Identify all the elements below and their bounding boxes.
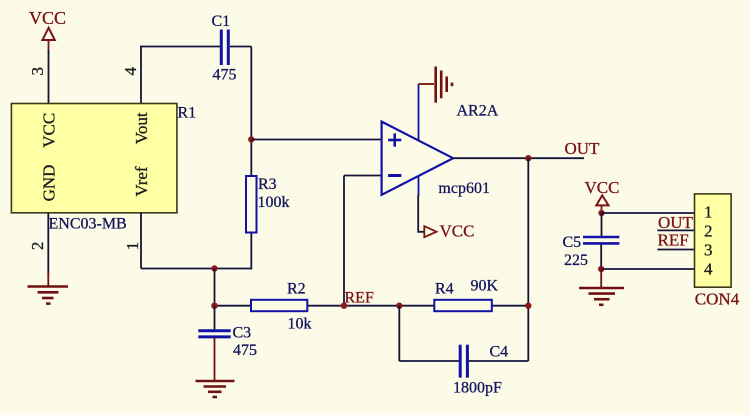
pin number 2 (CON4)	[704, 222, 713, 241]
power flag VCC (C5 / CON4 pin1)	[585, 178, 620, 213]
svg-text:10k: 10k	[288, 315, 312, 332]
net label OUT	[565, 139, 601, 158]
wire R3 bottom lead	[250, 233, 252, 270]
ground (rotated, op-amp top supply)	[419, 67, 453, 103]
value 100k	[258, 194, 290, 211]
svg-text:4: 4	[704, 259, 713, 278]
junction (output branch)	[525, 155, 531, 161]
junction (C5 bottom)	[598, 266, 604, 272]
svg-text:GND: GND	[40, 165, 59, 202]
wire C1 right plate to corner	[230, 46, 251, 48]
wire tap down to REF rail	[214, 269, 216, 306]
svg-text:C3: C3	[233, 324, 252, 341]
svg-text:REF: REF	[658, 230, 689, 249]
wire to op-amp + input	[251, 139, 381, 141]
wire C4 bottom right	[469, 360, 528, 362]
ground (C5)	[579, 288, 624, 305]
svg-text:4: 4	[121, 67, 140, 76]
svg-text:mcp601: mcp601	[438, 180, 490, 197]
pin name GND	[40, 165, 59, 202]
wire C4 left leg down	[398, 306, 400, 361]
power flag VCC (top left, pin 3 net)	[29, 8, 66, 52]
pin number 3 (CON4)	[704, 240, 713, 259]
resistor R3 body	[246, 176, 257, 233]
svg-text:VCC: VCC	[440, 222, 475, 241]
wire pin4 to C1 left plate	[140, 46, 220, 48]
wire U1 pin 4 up	[140, 47, 142, 104]
svg-text:Vout: Vout	[132, 112, 151, 144]
svg-text:VCC: VCC	[40, 113, 59, 148]
svg-text:1: 1	[704, 202, 713, 221]
junction (C3 tap)	[211, 303, 217, 309]
value 475 (C1)	[213, 67, 237, 84]
label C1	[212, 13, 231, 30]
pin number 3	[28, 67, 47, 76]
svg-text:C5: C5	[563, 234, 582, 251]
value 225	[564, 252, 588, 269]
svg-text:1: 1	[123, 242, 142, 251]
wire pin1 row to R3 bottom	[141, 268, 251, 270]
svg-text:C1: C1	[212, 13, 231, 30]
pin number 1	[123, 242, 142, 251]
svg-text:REF: REF	[345, 290, 374, 307]
designator R1	[178, 105, 197, 122]
svg-text:90K: 90K	[471, 278, 499, 295]
svg-text:2: 2	[28, 242, 47, 251]
capacitor C1 plates	[221, 30, 228, 66]
op-amp U2 mcp601	[382, 122, 454, 195]
wire C4 bottom left	[399, 360, 459, 362]
svg-text:C4: C4	[490, 343, 509, 360]
svg-text:3: 3	[704, 240, 713, 259]
part name mcp601	[438, 180, 490, 197]
junction (REF node, - input)	[341, 303, 347, 309]
wire REF rail	[215, 305, 529, 307]
value 475 (C3)	[233, 342, 257, 359]
ground (C3)	[196, 381, 235, 397]
wire C5 ground stem	[600, 269, 602, 287]
pin number 1 (CON4)	[704, 202, 713, 221]
ground (pin 2)	[28, 272, 69, 304]
wire U1 pin 1 down	[140, 213, 142, 269]
svg-text:475: 475	[213, 67, 237, 84]
wire C5 bottom to CON4 pin 4	[601, 268, 694, 270]
wire - input horizontal	[344, 175, 382, 177]
wire - input down to REF node	[343, 176, 345, 306]
wire corner down to + node	[250, 47, 252, 140]
capacitor C3 plates	[198, 331, 230, 337]
wire C5 bottom lead	[600, 244, 602, 269]
junction (C4 tap)	[396, 303, 402, 309]
wire op-amp V+ pin up	[418, 84, 420, 141]
power flag VCC (op-amp supply, right arrow)	[424, 222, 474, 241]
value 1800pF	[453, 380, 502, 397]
label R2	[287, 280, 306, 297]
pin name VCC	[40, 113, 59, 148]
svg-text:R3: R3	[258, 176, 277, 193]
junction (C1 / R3 / +input)	[248, 136, 254, 142]
svg-text:Vref: Vref	[132, 166, 151, 196]
label C4	[490, 343, 509, 360]
wire C3 top lead	[214, 306, 216, 330]
pin name Vref	[132, 166, 151, 196]
svg-text:2: 2	[704, 222, 713, 241]
wire op-amp output	[453, 157, 584, 159]
resistor R3 top lead	[250, 140, 252, 177]
svg-text:R4: R4	[435, 281, 454, 298]
wire U1 pin 2 down	[47, 213, 49, 274]
wire C5 top lead	[601, 213, 603, 236]
pin name Vout	[132, 112, 151, 144]
capacitor C4 plates	[460, 345, 467, 378]
connector J1 CON4 body	[695, 194, 732, 287]
svg-text:OUT: OUT	[565, 139, 601, 158]
net label REF	[345, 290, 374, 307]
svg-text:225: 225	[564, 252, 588, 269]
wire VCC flag to U1 pin 3	[48, 50, 50, 104]
value 90K	[471, 278, 499, 295]
wire CON4 pin 2 stub	[657, 229, 694, 231]
pin number 4	[121, 67, 140, 76]
resistor R2 body	[251, 300, 307, 311]
svg-text:ENC03-MB: ENC03-MB	[49, 216, 127, 233]
designator AR2A	[457, 103, 499, 120]
svg-text:VCC: VCC	[29, 8, 66, 28]
label R4	[435, 281, 454, 298]
capacitor C5 plates	[583, 237, 619, 243]
junction (C5 top)	[598, 210, 604, 216]
svg-text:OUT: OUT	[658, 213, 694, 232]
wire C3 bottom stem	[214, 338, 216, 381]
wire C5 top to CON4 pin 1	[602, 212, 695, 214]
junction (R4 right / output leg)	[525, 303, 531, 309]
label R3	[258, 176, 277, 193]
pin number 4 (CON4)	[704, 259, 713, 278]
wire output down to R4 right	[527, 158, 529, 361]
svg-text:R2: R2	[287, 280, 306, 297]
svg-text:AR2A: AR2A	[457, 103, 499, 120]
IC U1 ENC03-MB body	[11, 104, 177, 213]
svg-text:3: 3	[28, 67, 47, 76]
svg-text:CON4: CON4	[695, 289, 740, 308]
junction (REF rail left)	[211, 303, 217, 309]
resistor R4 body	[434, 300, 492, 311]
net label REF (CON4 pin 3)	[658, 230, 689, 249]
part name CON4	[695, 289, 740, 308]
svg-text:100k: 100k	[258, 194, 290, 211]
svg-text:1800pF: 1800pF	[453, 380, 502, 397]
wire op-amp V- pin down	[418, 176, 424, 232]
part name ENC03-MB	[49, 216, 127, 233]
junction (pin1 / feedback tap)	[211, 265, 217, 271]
wire CON4 pin 3 stub	[657, 249, 694, 251]
net label OUT (CON4 pin 2)	[658, 213, 694, 232]
value 10k	[288, 315, 312, 332]
label C5	[563, 234, 582, 251]
pin number 2	[28, 242, 47, 251]
svg-text:475: 475	[233, 342, 257, 359]
svg-text:R1: R1	[178, 105, 197, 122]
label C3	[233, 324, 252, 341]
